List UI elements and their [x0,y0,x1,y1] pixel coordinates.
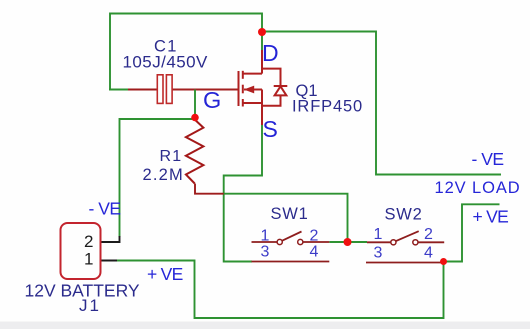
svg-text:G: G [203,87,221,113]
svg-text:3: 3 [261,244,270,261]
svg-text:2: 2 [84,232,93,251]
junction dot at SW2 pin4 [440,258,447,265]
svg-text:12V LOAD: 12V LOAD [435,179,521,197]
wire: SW1 pin 2 to SW2 pin 1 [329,241,367,243]
svg-text:4: 4 [424,245,433,262]
svg-text:SW2: SW2 [385,206,423,224]
svg-text:SW1: SW1 [271,205,309,223]
svg-text:4: 4 [310,244,319,261]
svg-text:IRFP450: IRFP450 [292,98,363,116]
svg-text:J1: J1 [79,296,101,315]
svg-text:1: 1 [84,250,93,269]
junction dot at Q1 drain [258,28,266,36]
svg-text:- VE: - VE [472,149,504,169]
svg-text:2: 2 [310,228,319,245]
svg-text:2: 2 [424,226,433,243]
wire: battery pin 1 stub (black) [101,260,118,262]
Q1 body arrow [244,86,254,94]
svg-text:3: 3 [374,245,383,262]
transistor Q1 (N-MOSFET) [239,50,263,125]
svg-text:105J/450V: 105J/450V [123,53,209,72]
wire: SW2 pin 4 to +VE load terminal [441,204,500,261]
svg-text:2.2M: 2.2M [143,166,184,184]
wire: gate node drop to R1 [194,90,196,118]
wire: drain net to -VE load terminal [264,32,501,175]
capacitor C1 [157,75,172,104]
wire: bottom return SW2 pin 4 to battery pin 1 (+VE) [115,261,444,319]
wire: R1 bottom lead (maroon) [195,184,224,194]
battery connector J1 [61,223,101,279]
wire: battery pin 2 stub (black) [101,236,120,242]
wire: source net down-left to SW1 pin 3 [224,124,262,262]
wire: C1 left lead (green then maroon) [109,89,158,91]
svg-text:- VE: - VE [89,199,121,219]
wire: top net C1 left to Q1 drain (green loop) [110,14,262,90]
junction dot at gate/R1 node [191,114,199,122]
svg-text:D: D [262,40,279,66]
svg-text:S: S [263,116,278,142]
wire: C1 right lead to Q1 gate [172,89,238,91]
resistor R1 [186,120,204,184]
svg-text:R1: R1 [160,148,183,165]
switch SW1 [252,232,330,262]
diode: Q1 body diode [262,69,287,106]
wire: gate node to battery pin 2 (-VE) [120,119,196,237]
svg-text:1: 1 [261,228,270,245]
switch SW2 [366,231,444,262]
bottom grey strip [0,322,530,329]
svg-text:+ VE: + VE [147,264,183,284]
wire: R1 net to SW1 pin 2 junction [224,194,348,241]
junction dot at SW1 pin2 / SW2 pin1 [344,238,352,246]
svg-text:+ VE: + VE [473,207,509,227]
svg-text:1: 1 [374,226,383,243]
